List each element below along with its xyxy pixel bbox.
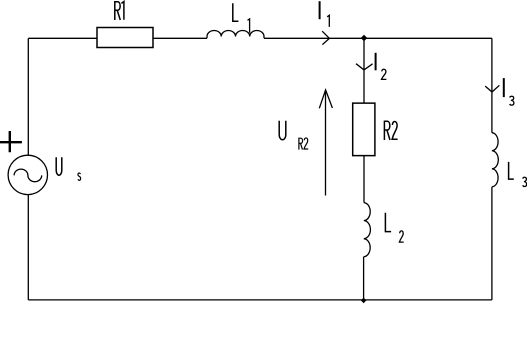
resistor R2	[353, 103, 375, 156]
wire bottom	[28, 299, 492, 301]
label L3	[509, 162, 514, 179]
label U_R2	[279, 121, 286, 140]
label R2	[384, 121, 397, 140]
label L1	[233, 3, 239, 21]
wire L1 to node A	[264, 37, 364, 39]
wire right vertical lower	[491, 187, 493, 300]
source Us circle	[8, 155, 47, 194]
wire node A down to R2	[363, 38, 365, 103]
wire R1 to L1	[153, 37, 207, 39]
wire top-left segment	[28, 37, 97, 39]
label I1	[319, 1, 321, 19]
polarity plus sign	[0, 131, 22, 152]
label Us	[56, 157, 62, 175]
current arrow I3	[485, 85, 499, 92]
wire node A to top-right corner	[364, 37, 492, 39]
label L2	[385, 213, 391, 232]
wire right vertical upper	[491, 38, 493, 132]
label I2	[375, 53, 377, 71]
current arrow I1	[322, 31, 329, 44]
wire left vertical upper	[27, 38, 29, 155]
node A junction dot	[361, 35, 368, 42]
node B junction dot	[361, 298, 367, 304]
inductor L2	[364, 203, 371, 257]
voltage arrow U_R2	[325, 90, 327, 196]
label R1	[115, 1, 124, 20]
wire L2 to node B	[363, 257, 365, 300]
source Us sine	[14, 169, 42, 182]
wire R2 to L2	[363, 156, 365, 203]
current arrow I2	[356, 64, 373, 70]
inductor L1	[207, 30, 264, 38]
label I3	[503, 78, 505, 97]
inductor L3	[492, 133, 498, 187]
resistor R1	[97, 28, 153, 48]
wire left vertical lower	[27, 195, 29, 300]
